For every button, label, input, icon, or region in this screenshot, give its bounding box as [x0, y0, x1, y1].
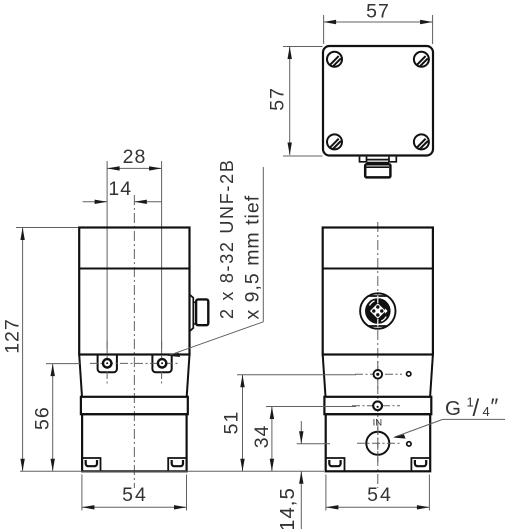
front center line [133, 195, 135, 488]
svg-text:″: ″ [491, 394, 499, 419]
dim 54 side [326, 475, 430, 511]
front right foot [168, 458, 186, 471]
front screw right [158, 359, 166, 367]
dim 57 top arrows [324, 20, 337, 24]
front screw pocket left [98, 355, 117, 373]
dim 14,5 [297, 421, 330, 529]
side small screw [374, 370, 383, 379]
screw top-left [327, 52, 342, 67]
side cap line [323, 268, 433, 270]
front body upper [79, 228, 189, 355]
front base [82, 414, 187, 471]
G 1/4 label [395, 419, 505, 437]
side band slanted sides [323, 355, 326, 397]
dim 51 [237, 375, 356, 472]
svg-text:/: / [473, 395, 480, 422]
top view housing square [323, 46, 433, 156]
label leader UNF [169, 167, 263, 355]
dim 56 [46, 364, 80, 472]
svg-text:127: 127 [2, 318, 24, 354]
svg-text:28: 28 [123, 146, 147, 168]
dim 57 left: extension + dim lines [283, 47, 323, 157]
IN port circle [373, 401, 382, 410]
side flange [324, 397, 431, 414]
svg-text:G: G [445, 397, 461, 420]
svg-text:2 x 8-32 UNF-2B: 2 x 8-32 UNF-2B [217, 158, 237, 319]
front band slanted sides [79, 355, 82, 397]
screw bottom-right [414, 134, 429, 149]
screw bottom-left [327, 134, 342, 149]
side center line [377, 222, 379, 488]
dim 54 front [82, 475, 187, 511]
svg-text:57: 57 [267, 87, 289, 111]
front left foot [82, 458, 100, 471]
top connector flange bracket [360, 157, 397, 168]
M12 connector face [360, 293, 395, 328]
dim 34 [266, 407, 356, 472]
front screw pocket right [152, 355, 171, 373]
G port crosshair [357, 427, 402, 462]
dim 14 [83, 201, 162, 203]
svg-text:4: 4 [483, 404, 490, 419]
svg-text:54: 54 [367, 484, 393, 506]
bottom extension line shared [20, 470, 324, 472]
svg-text:x 9,5 mm tief: x 9,5 mm tief [242, 195, 264, 320]
front flange [81, 397, 188, 414]
IN crosshair [352, 405, 400, 407]
svg-text:14,5: 14,5 [276, 487, 299, 529]
svg-text:34: 34 [251, 425, 273, 449]
svg-text:57: 57 [366, 1, 390, 23]
side dot upper [407, 372, 411, 376]
side base [326, 414, 431, 471]
screw top-right [414, 52, 429, 67]
side right foot [411, 458, 430, 471]
svg-text:54: 54 [122, 484, 148, 506]
dim 57 left arrows [288, 47, 292, 60]
side dot lower [407, 442, 411, 446]
side body upper [323, 228, 433, 355]
hole extension lines through body [107, 161, 162, 352]
front side connector (M12 side) [190, 295, 197, 332]
svg-text:51: 51 [221, 411, 243, 435]
dim 57 top: extension lines [324, 15, 433, 44]
svg-text:56: 56 [32, 406, 54, 430]
G 1/4 port circle [366, 432, 389, 455]
dim 28 [107, 167, 162, 169]
dim 127 [16, 228, 78, 472]
svg-text:IN: IN [373, 417, 383, 428]
side left foot [326, 458, 345, 471]
side screw crosshair [355, 361, 402, 389]
pocket crosshairs [90, 341, 180, 386]
front cap line [79, 268, 189, 270]
svg-text:14: 14 [108, 178, 132, 200]
top connector plug body [365, 164, 390, 177]
front screw left [103, 359, 111, 367]
